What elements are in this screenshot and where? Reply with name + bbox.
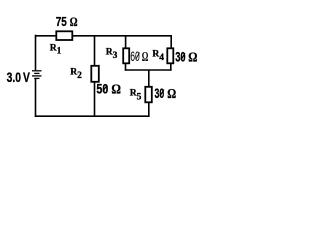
svg-text:R2: R2 <box>70 67 82 81</box>
battery B1 short plate bottom <box>34 77 39 79</box>
wire left vertical lower (battery minus to bottom-left corner) <box>35 79 37 117</box>
svg-text:30: 30 <box>155 85 165 101</box>
wire R4 bottom stub <box>170 64 172 71</box>
svg-text:75: 75 <box>56 14 67 29</box>
svg-text:Ω: Ω <box>188 51 197 66</box>
wire top horizontal from battery top to R4 corner <box>36 35 173 37</box>
svg-text:60: 60 <box>130 48 140 64</box>
battery B1 short plate <box>34 72 39 74</box>
svg-text:30: 30 <box>175 49 186 65</box>
resistor R3 box <box>123 48 129 63</box>
svg-text:Ω: Ω <box>142 49 149 64</box>
svg-text:3.0 V: 3.0 V <box>7 69 31 85</box>
wire R4 branch vertical <box>170 36 172 48</box>
resistor R5 box <box>145 87 152 103</box>
svg-text:R4: R4 <box>152 50 164 63</box>
resistor R2 box <box>91 66 99 82</box>
battery B1 long plate lower <box>32 75 42 77</box>
wire parallel-section bottom horizontal <box>125 69 172 71</box>
wire R3 branch vertical <box>125 36 127 48</box>
svg-text:Ω: Ω <box>70 14 78 29</box>
svg-text:50: 50 <box>96 81 108 97</box>
svg-text:R5: R5 <box>130 89 142 103</box>
wire bottom horizontal <box>35 115 150 117</box>
battery B1 long plate top <box>32 70 42 72</box>
svg-text:R1: R1 <box>50 43 62 56</box>
svg-text:Ω: Ω <box>167 87 176 102</box>
svg-text:R3: R3 <box>106 48 118 62</box>
resistor R1 box <box>56 31 72 40</box>
wire R5 branch vertical <box>148 70 150 116</box>
wire R2 branch vertical <box>94 36 96 116</box>
wire left vertical upper (battery plus to top-left corner) <box>35 35 37 70</box>
resistor R4 box <box>167 48 173 63</box>
wire R3 bottom stub <box>125 64 127 71</box>
svg-text:Ω: Ω <box>111 83 121 98</box>
